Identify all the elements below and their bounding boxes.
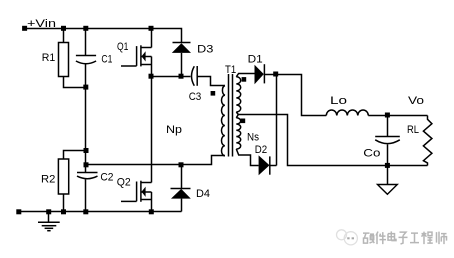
svg-text:R1: R1 xyxy=(42,52,56,64)
svg-text:D1: D1 xyxy=(248,53,263,65)
svg-text:Vo: Vo xyxy=(408,95,424,107)
svg-text:RL: RL xyxy=(407,124,419,136)
svg-text:R2: R2 xyxy=(41,174,55,186)
svg-text:Ns: Ns xyxy=(247,132,259,144)
svg-text:C3: C3 xyxy=(189,91,202,103)
svg-text:D4: D4 xyxy=(196,188,210,200)
svg-text:Co: Co xyxy=(363,147,380,159)
svg-text:D3: D3 xyxy=(197,44,213,56)
svg-text:Lo: Lo xyxy=(330,95,347,107)
svg-text:Q2: Q2 xyxy=(117,177,131,189)
svg-text:+Vin: +Vin xyxy=(27,18,56,30)
svg-text:T1: T1 xyxy=(225,64,236,76)
svg-text:C2: C2 xyxy=(100,171,113,183)
svg-text:C1: C1 xyxy=(101,53,112,65)
svg-text:D2: D2 xyxy=(255,144,267,156)
svg-text:Np: Np xyxy=(166,124,182,136)
svg-text:Q1: Q1 xyxy=(117,41,128,53)
